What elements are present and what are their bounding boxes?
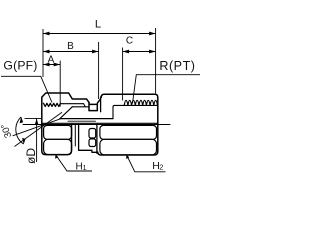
- svg-text:1: 1: [83, 165, 87, 172]
- extension line B right: [98, 42, 100, 99]
- sleeve shoulder step: [84, 104, 86, 107]
- leader line G(PF): [1, 76, 52, 102]
- G(PF) female thread zigzag: [44, 103, 61, 106]
- svg-text:A: A: [48, 55, 55, 66]
- dimension line B: [43, 51, 99, 53]
- left extension line for L B A: [42, 29, 44, 77]
- extension line C left: [122, 48, 124, 101]
- arrowhead dia D up: [35, 119, 39, 126]
- arrowhead B right: [92, 50, 99, 54]
- sleeve retaining hook in section: [89, 99, 101, 111]
- counterbore step: [113, 105, 114, 118]
- arrowhead L right: [149, 32, 156, 36]
- leader line H2: [127, 155, 166, 172]
- swivel nut H1 outline, sectioned upper half: [42, 93, 89, 125]
- bore hole line (dia D): [61, 118, 114, 120]
- 30 degree flare cone edge: [60, 107, 73, 119]
- sleeve outer top line: [61, 103, 84, 105]
- sleeve edge seen in gap: [74, 125, 76, 146]
- arrowhead arc top: [20, 117, 24, 124]
- svg-text:R(PT): R(PT): [159, 59, 195, 73]
- svg-text:2: 2: [159, 162, 163, 171]
- arrowhead A left: [43, 63, 50, 67]
- 30 degree dimension arc: [16, 117, 24, 144]
- svg-text:G(PF): G(PF): [3, 58, 37, 72]
- body H2 lower hex flat: [100, 139, 157, 155]
- svg-text:B: B: [67, 41, 74, 52]
- arrowhead C right: [149, 50, 156, 54]
- arrowhead H1 leader: [55, 154, 58, 158]
- arrowhead B left: [43, 50, 50, 54]
- tube wall line: [68, 120, 96, 122]
- thread end face / A extension line: [59, 61, 61, 106]
- collar piece between nut and body: [79, 125, 97, 154]
- leader line H1: [56, 155, 93, 172]
- svg-text:L: L: [95, 19, 101, 31]
- dimension line C: [123, 51, 156, 53]
- svg-text:C: C: [126, 36, 133, 47]
- 30 degree angle leg lower: [15, 112, 63, 146]
- body left end face: [100, 97, 102, 112]
- 30 degree angle leg upper: [13, 119, 61, 136]
- svg-text:øD: øD: [24, 148, 38, 164]
- right extension line for L C: [155, 28, 157, 94]
- nut H1 lower hex flat: [44, 139, 72, 154]
- arrowhead arc bottom: [22, 138, 25, 145]
- dia D dimension line and extension: [25, 118, 43, 162]
- R(PT) female thread wave: [124, 100, 157, 105]
- arrowhead H2 leader: [126, 155, 129, 159]
- centerline axis: [23, 124, 170, 126]
- collar upper hex facet: [89, 129, 96, 139]
- body outline, sectioned upper half: [101, 94, 158, 124]
- body H2 outer silhouette lower half: [98, 125, 158, 156]
- sleeve OD line: [72, 106, 89, 108]
- arrowhead L left: [43, 32, 50, 36]
- counterbore line and R thread root: [114, 104, 157, 106]
- dimension line L: [43, 33, 156, 35]
- body H2 upper hex flat: [100, 125, 157, 139]
- nut H1 upper hex flat: [44, 125, 72, 139]
- leader line R(PT): [133, 75, 201, 104]
- dimension line A: [43, 64, 60, 66]
- arrowhead C left: [123, 50, 130, 54]
- collar lower hex facet: [89, 139, 96, 147]
- arrowhead A right: [54, 63, 61, 67]
- silhouette top line of external lower half: [42, 122, 158, 124]
- nut H1 outer silhouette lower half: [42, 125, 72, 155]
